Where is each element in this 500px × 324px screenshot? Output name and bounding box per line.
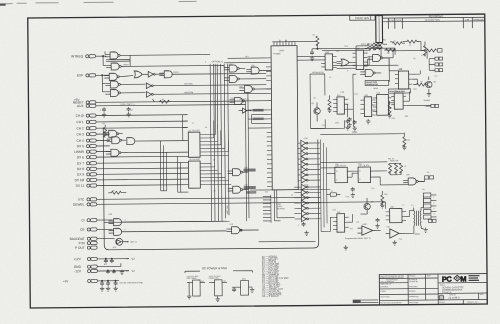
svg-text:16: 16 — [205, 127, 207, 129]
IC U4 UART — [266, 42, 301, 190]
svg-text:R25: R25 — [384, 194, 387, 196]
wire bus joins — [213, 64, 228, 152]
resistor R16 — [392, 41, 402, 45]
ground G10 — [423, 228, 427, 233]
svg-text:−12V: −12V — [73, 269, 81, 273]
svg-text:U1Ø: U1Ø — [111, 52, 116, 54]
capacitor C12 — [375, 218, 379, 228]
PCM logo — [442, 274, 480, 283]
svg-text:DX 1Ø: DX 1Ø — [75, 178, 85, 182]
svg-text:R21: R21 — [383, 39, 386, 41]
svg-text:+5: +5 — [404, 166, 406, 168]
svg-text:U3Ø: U3Ø — [325, 52, 329, 54]
svg-text:P OUT: P OUT — [75, 246, 85, 250]
IC U32 — [353, 48, 368, 70]
and gate U15A — [246, 67, 271, 74]
connector boxes out2 — [428, 219, 436, 222]
svg-text:3: 3 — [217, 69, 218, 71]
capacitor C9 — [347, 117, 351, 127]
text xmit clock vertical — [227, 205, 229, 214]
wire ch bundle vertical — [183, 115, 188, 141]
option bus label — [212, 61, 224, 63]
svg-text:TR16Ø2: TR16Ø2 — [273, 53, 281, 55]
svg-text:Q3: Q3 — [371, 201, 374, 203]
svg-text:CH 1: CH 1 — [76, 120, 84, 124]
transformer T1 — [411, 205, 421, 229]
connector +5V — [63, 279, 119, 283]
net list table — [262, 255, 290, 298]
resistor R12 — [402, 133, 410, 150]
connector J1-DX6 — [77, 154, 188, 159]
connector J1-CI — [81, 218, 112, 222]
svg-text:FINISH: FINISH — [380, 291, 386, 293]
svg-text:DX 11: DX 11 — [76, 184, 85, 188]
svg-text:U1Ø: U1Ø — [110, 73, 115, 75]
connector J1-DX7 — [77, 161, 188, 166]
xmit buffer comb — [263, 195, 286, 223]
svg-text:DATE: DATE — [396, 19, 402, 22]
voltage regulator VR2 — [208, 275, 227, 297]
connector J1-CH3 — [76, 132, 109, 136]
wire bottom links — [258, 195, 436, 242]
connector J1-CH0 — [76, 113, 188, 118]
ref labels right cluster — [107, 39, 439, 243]
svg-text:U15: U15 — [239, 86, 242, 88]
connector J1-DX11 — [76, 183, 189, 188]
svg-text:CH 3: CH 3 — [76, 132, 84, 136]
svg-text:CRDY: CRDY — [173, 72, 179, 74]
nand gate U18B — [228, 186, 257, 194]
svg-text:T1: T1 — [402, 205, 404, 207]
wire dx bundle verticals — [160, 141, 188, 193]
svg-text:LTR: LTR — [465, 19, 469, 21]
nand gate U16C — [106, 149, 188, 157]
nand gate U15C — [229, 97, 271, 104]
and gate U19A — [227, 226, 259, 233]
svg-text:Q1: Q1 — [311, 103, 314, 105]
voltage regulator VR3 — [232, 279, 252, 296]
svg-text:TDA41-6: TDA41-6 — [442, 291, 452, 294]
inverter column B — [294, 184, 320, 222]
wire top links — [272, 39, 395, 56]
nand gate U18A — [228, 169, 256, 176]
nand gate U15B — [239, 85, 271, 92]
svg-text:U42: U42 — [337, 212, 340, 214]
connector pair row1 — [429, 57, 442, 60]
svg-text:U41: U41 — [387, 226, 390, 228]
svg-text:U18: U18 — [244, 185, 247, 187]
svg-text:4Ø46: 4Ø46 — [373, 88, 377, 90]
IC U3 (latch) — [188, 159, 231, 188]
svg-text:P3: P3 — [422, 189, 424, 191]
nand gate U10E — [105, 89, 145, 97]
capacitor C2 on aux — [126, 107, 134, 117]
svg-text:PC: PC — [442, 275, 453, 284]
svg-text:DEWEL: DEWEL — [73, 203, 85, 207]
svg-text:C8: C8 — [413, 58, 415, 60]
wire uart left feeds — [224, 58, 294, 222]
capacitor C34 with ground — [113, 281, 143, 291]
IC U30 — [321, 52, 337, 70]
inverter U12B — [146, 82, 266, 89]
svg-text:CH 2: CH 2 — [76, 126, 84, 130]
svg-text:U2Ø: U2Ø — [115, 228, 120, 230]
resistor R4 — [108, 190, 126, 194]
ground G8 — [344, 245, 348, 250]
svg-text:10-MAR-80: 10-MAR-80 — [409, 280, 418, 283]
waveform gen strip 2 — [388, 89, 410, 93]
svg-text:R23: R23 — [413, 89, 416, 91]
connector J1-XTC — [78, 196, 310, 202]
svg-text:DX 8: DX 8 — [77, 167, 84, 171]
size / dwg no / rev — [439, 293, 484, 304]
capacitor C31 group with grounds — [106, 269, 124, 274]
svg-text:6ØØΩ: 6ØØΩ — [415, 233, 421, 236]
svg-text:U2Ø: U2Ø — [114, 218, 119, 220]
svg-text:3: 3 — [125, 220, 126, 222]
svg-text:8T97: 8T97 — [304, 138, 308, 140]
svg-text:AUX: AUX — [77, 104, 84, 108]
connector -12V — [73, 269, 135, 274]
resistor R18 vertical — [423, 42, 426, 57]
and gate U20A (CI) — [108, 217, 226, 225]
svg-text:+5V ON CHECKOUT GND: +5V ON CHECKOUT GND — [119, 282, 143, 284]
connector J1-POUT — [75, 246, 97, 250]
svg-text:C1Ø: C1Ø — [340, 92, 344, 94]
svg-text:Y1: Y1 — [331, 191, 333, 193]
svg-text:RDSTRB: RDSTRB — [184, 84, 193, 86]
op-amp U40 — [358, 224, 381, 236]
svg-text:U1Ø: U1Ø — [112, 63, 117, 65]
resistor R14 — [373, 43, 387, 46]
svg-text:1: 1 — [433, 196, 434, 198]
svg-text:P IN: P IN — [79, 241, 86, 245]
svg-text:U3 74LS157: U3 74LS157 — [189, 159, 201, 161]
svg-text:8T97: 8T97 — [304, 185, 308, 187]
svg-text:REG 78M05: REG 78M05 — [187, 278, 197, 280]
connector J1-CH4 — [77, 138, 110, 142]
capacitor C14 — [345, 119, 349, 130]
scan edge dashes — [0, 0, 464, 4]
svg-text:UART: UART — [279, 49, 285, 52]
svg-text:+5V: +5V — [74, 98, 81, 102]
resistor R6 — [365, 43, 381, 47]
wire uart top pins — [274, 40, 295, 42]
svg-text:+12: +12 — [130, 258, 135, 261]
connector J1-CE — [80, 227, 112, 231]
svg-text:REG: REG — [242, 279, 247, 281]
svg-text:PRINT BIN: PRINT BIN — [355, 16, 369, 20]
IC U34 — [333, 95, 348, 114]
text reset in — [239, 99, 249, 101]
svg-text:DC POWER & GND: DC POWER & GND — [202, 266, 227, 270]
connector J1-EXP — [77, 73, 109, 77]
resistor R8 — [327, 95, 332, 112]
svg-text:2: 2 — [433, 202, 434, 204]
svg-text:P2: P2 — [427, 172, 429, 174]
capacitor C13 xtal — [326, 191, 340, 197]
svg-text:DRAWN: DRAWN — [409, 274, 416, 277]
svg-text:SHT C1: SHT C1 — [130, 242, 138, 244]
svg-text:+12V: +12V — [73, 257, 81, 261]
wire mesh right cluster — [297, 41, 431, 134]
capacitor C11 — [351, 187, 355, 197]
wire uart mid feeds — [248, 110, 267, 128]
inverter column A — [301, 140, 320, 183]
svg-text:U39: U39 — [390, 207, 393, 209]
FCO stamp — [353, 299, 379, 303]
module boundary rounded box — [103, 125, 319, 249]
svg-text:U31: U31 — [342, 59, 345, 61]
connector J1-DX9 — [77, 172, 188, 177]
svg-text:79M05 REG: 79M05 REG — [209, 278, 220, 280]
resistor R13 under bar — [373, 47, 383, 50]
nand gate U33A — [368, 54, 390, 61]
IC U35 — [360, 95, 375, 117]
svg-text:XMIT CLK: XMIT CLK — [227, 205, 229, 214]
svg-text:−12: −12 — [130, 270, 135, 273]
svg-text:APPROVED: APPROVED — [473, 18, 486, 21]
capacitor C1 on aux — [100, 107, 107, 117]
svg-text:U42: U42 — [332, 209, 335, 211]
svg-text:DO NOT SCALE DRAWING: DO NOT SCALE DRAWING — [380, 301, 402, 304]
svg-text:R24 1K: R24 1K — [388, 158, 395, 160]
svg-text:U1Ø: U1Ø — [111, 81, 116, 83]
svg-text:3: 3 — [433, 208, 434, 210]
svg-text:R12: R12 — [406, 140, 409, 142]
and gate U17A — [127, 137, 188, 145]
resistor R7 — [365, 47, 381, 50]
connector box col — [423, 193, 431, 219]
transistor Q3 — [364, 198, 374, 214]
connector J1-AUX — [77, 103, 246, 108]
svg-text:5: 5 — [205, 61, 206, 63]
flipflop U37 — [358, 165, 370, 183]
svg-text:U14: U14 — [229, 64, 232, 66]
connector pair row4 — [426, 104, 439, 107]
connector J1-DEWEL — [73, 200, 385, 207]
section label DC POWER & GND — [185, 266, 253, 273]
nand gate U14A — [224, 65, 245, 72]
wire feeder verticals — [393, 51, 429, 71]
voltage regulator VR1 — [186, 275, 205, 296]
svg-text:EXP: EXP — [77, 74, 83, 78]
connector J1-BAUDRAT — [70, 237, 115, 241]
svg-text:OPTION #1: OPTION #1 — [212, 61, 224, 63]
svg-text:U19: U19 — [230, 224, 233, 226]
buffer U21 (BAUDRAT) — [113, 238, 139, 249]
latch cross wires — [103, 51, 130, 66]
svg-text:WAVEFORM GEN: WAVEFORM GEN — [389, 90, 405, 93]
nand gate U16B — [107, 137, 126, 144]
svg-text:LINMR: LINMR — [74, 150, 85, 154]
IC U45 timer — [395, 69, 412, 89]
wire cross links — [321, 162, 408, 186]
capacitor C7 — [310, 49, 322, 61]
capacitor C30 — [104, 259, 114, 266]
svg-text:+12: +12 — [434, 75, 437, 77]
svg-text:.1: .1 — [298, 225, 300, 227]
IC U39 — [386, 207, 406, 223]
ground for VR2 — [215, 297, 219, 302]
revisions table — [382, 14, 486, 29]
IC U44 — [391, 91, 406, 109]
resistor R11 — [380, 191, 385, 208]
svg-text:+5V: +5V — [63, 279, 68, 283]
svg-text:555: 555 — [399, 68, 402, 70]
svg-text:DX 6: DX 6 — [77, 155, 84, 159]
svg-text:U4Ø: U4Ø — [363, 224, 367, 226]
svg-text:12: 12 — [291, 195, 293, 197]
title block — [379, 274, 487, 305]
connector J1-INTREQ — [71, 54, 106, 58]
connector J1-PIN — [79, 241, 98, 245]
connector J1-DX10 — [75, 177, 189, 182]
svg-text:CE: CE — [80, 228, 84, 232]
svg-text:2N39Ø4: 2N39Ø4 — [423, 100, 430, 102]
svg-text:+5: +5 — [409, 45, 411, 47]
svg-text:DX 5: DX 5 — [77, 144, 84, 148]
nand gate U10A — [105, 52, 130, 59]
svg-text:FCO: FCO — [353, 300, 358, 303]
svg-text:SYM: SYM — [389, 20, 394, 22]
ground for VR3 — [250, 288, 254, 293]
wire long y221 — [104, 221, 229, 222]
svg-text:SCALE: SCALE — [439, 301, 445, 304]
inverter U12A — [148, 71, 163, 77]
svg-text:C13: C13 — [399, 239, 402, 241]
wire dewel link — [384, 202, 386, 209]
svg-text:BUFFER: BUFFER — [277, 208, 285, 210]
svg-text:+5: +5 — [192, 123, 194, 125]
svg-text:U2 74LS157: U2 74LS157 — [189, 130, 201, 132]
nand gate U10D — [105, 80, 145, 88]
connector J1-CH1 — [76, 119, 187, 124]
capacitor C5 below inverters — [298, 222, 309, 235]
svg-text:CHECKED: CHECKED — [409, 286, 418, 288]
svg-text:U37: U37 — [358, 164, 361, 166]
svg-text:U1Ø: U1Ø — [111, 89, 116, 91]
connector boxes out1 — [418, 176, 434, 182]
connector J1-DX5 — [77, 144, 110, 148]
svg-text:ISSUED: ISSUED — [409, 291, 416, 293]
and gate U20B (CE) — [109, 227, 227, 235]
connector pair row3 — [429, 69, 442, 72]
svg-text:6: 6 — [125, 229, 126, 231]
text aux note — [120, 104, 136, 106]
svg-text:M: M — [460, 274, 466, 283]
capacitor C33 with grounds — [100, 281, 110, 291]
nand gate U38A — [403, 178, 425, 185]
svg-text:APPROVED: APPROVED — [409, 295, 419, 298]
svg-text:DESCRIPTION: DESCRIPTION — [425, 20, 440, 22]
svg-text:U2: U2 — [213, 159, 215, 161]
svg-text:DX 7: DX 7 — [77, 161, 84, 165]
connector pair row2 — [429, 63, 442, 66]
svg-text:U31: U31 — [336, 51, 339, 53]
title text — [440, 285, 465, 295]
svg-text:U34: U34 — [354, 94, 357, 96]
svg-text:1ØØpf: 1ØØpf — [352, 132, 358, 134]
svg-text:INTREQ: INTREQ — [71, 54, 84, 58]
buffer U15E with sheet refs — [239, 108, 264, 120]
svg-text:U18: U18 — [244, 167, 247, 169]
svg-text:U2Ø: U2Ø — [108, 214, 112, 216]
or gate U31A — [337, 59, 357, 66]
svg-text:CI: CI — [81, 218, 84, 222]
text programmable divider — [345, 237, 371, 240]
resistor pack RP1 (dark vertical bar) — [376, 16, 383, 43]
ground G5 — [366, 119, 370, 124]
svg-text:C11: C11 — [322, 125, 325, 127]
svg-text:AA — P IN/OUT: AA — P IN/OUT — [262, 295, 279, 298]
svg-text:CRDY: CRDY — [123, 64, 129, 66]
IC U43 — [373, 93, 392, 116]
resistor R9 + connector — [424, 47, 442, 52]
svg-text:R2Ø 4.7K: R2Ø 4.7K — [361, 44, 370, 46]
svg-text:T1: T1 — [411, 205, 413, 207]
resistor R15 — [386, 48, 396, 54]
svg-text:XTC: XTC — [78, 198, 85, 202]
svg-text:U14: U14 — [245, 56, 248, 58]
IC U42 — [333, 212, 349, 233]
resistor R17 — [407, 40, 421, 43]
nand gate U15D — [224, 75, 266, 82]
nand gate U16A — [104, 130, 123, 137]
svg-text:NEXT ASSY: NEXT ASSY — [380, 295, 390, 298]
connector J1-LINMR — [74, 150, 110, 154]
svg-text:MODULATOR: MODULATOR — [312, 71, 324, 74]
svg-text:MATERIAL: MATERIAL — [380, 285, 388, 288]
or gate U11A — [134, 71, 148, 78]
svg-text:U32: U32 — [356, 48, 359, 50]
svg-text:72-0-96-0: 72-0-96-0 — [448, 296, 460, 300]
module box for modulator — [310, 74, 325, 129]
svg-text:R22: R22 — [392, 118, 395, 120]
resistor R2 on reset line — [74, 97, 170, 104]
svg-text:SHEET 1 OF 1: SHEET 1 OF 1 — [467, 302, 478, 304]
waveform gen label — [365, 80, 389, 86]
connector J1-CH2 — [76, 126, 187, 131]
svg-text:Programmable divider (SHT 2): Programmable divider (SHT 2) — [345, 237, 371, 240]
svg-text:DX 9: DX 9 — [77, 173, 84, 177]
svg-text:D: D — [440, 296, 442, 300]
wire EXP branch — [102, 75, 105, 92]
connector J1-DX8 — [77, 166, 188, 171]
resistor R5 pullup — [312, 34, 319, 49]
flipflop U36 — [335, 165, 348, 183]
connector GND — [74, 263, 121, 269]
svg-text:+5: +5 — [393, 41, 395, 43]
resistor R3 pullup — [102, 123, 107, 137]
transistor Q2 — [413, 76, 436, 96]
svg-text:12: 12 — [329, 77, 331, 79]
nand gate U33B — [360, 69, 381, 76]
resistor R19 vertical — [387, 101, 392, 118]
svg-text:9: 9 — [347, 70, 348, 72]
svg-text:Q1: Q1 — [313, 97, 315, 99]
resistor network R10 — [388, 160, 402, 175]
wire right bus verticals — [320, 139, 327, 231]
svg-text:WRSTRB: WRSTRB — [184, 92, 193, 94]
svg-text:U43: U43 — [377, 93, 380, 95]
svg-text:CH 4: CH 4 — [77, 139, 85, 143]
print bin box — [350, 15, 375, 20]
svg-text:U34: U34 — [337, 95, 340, 97]
svg-text:.ØØ1: .ØØ1 — [335, 122, 339, 124]
ground for VR1 — [187, 294, 191, 299]
svg-text:R1Ø 2.2K: R1Ø 2.2K — [390, 160, 399, 162]
